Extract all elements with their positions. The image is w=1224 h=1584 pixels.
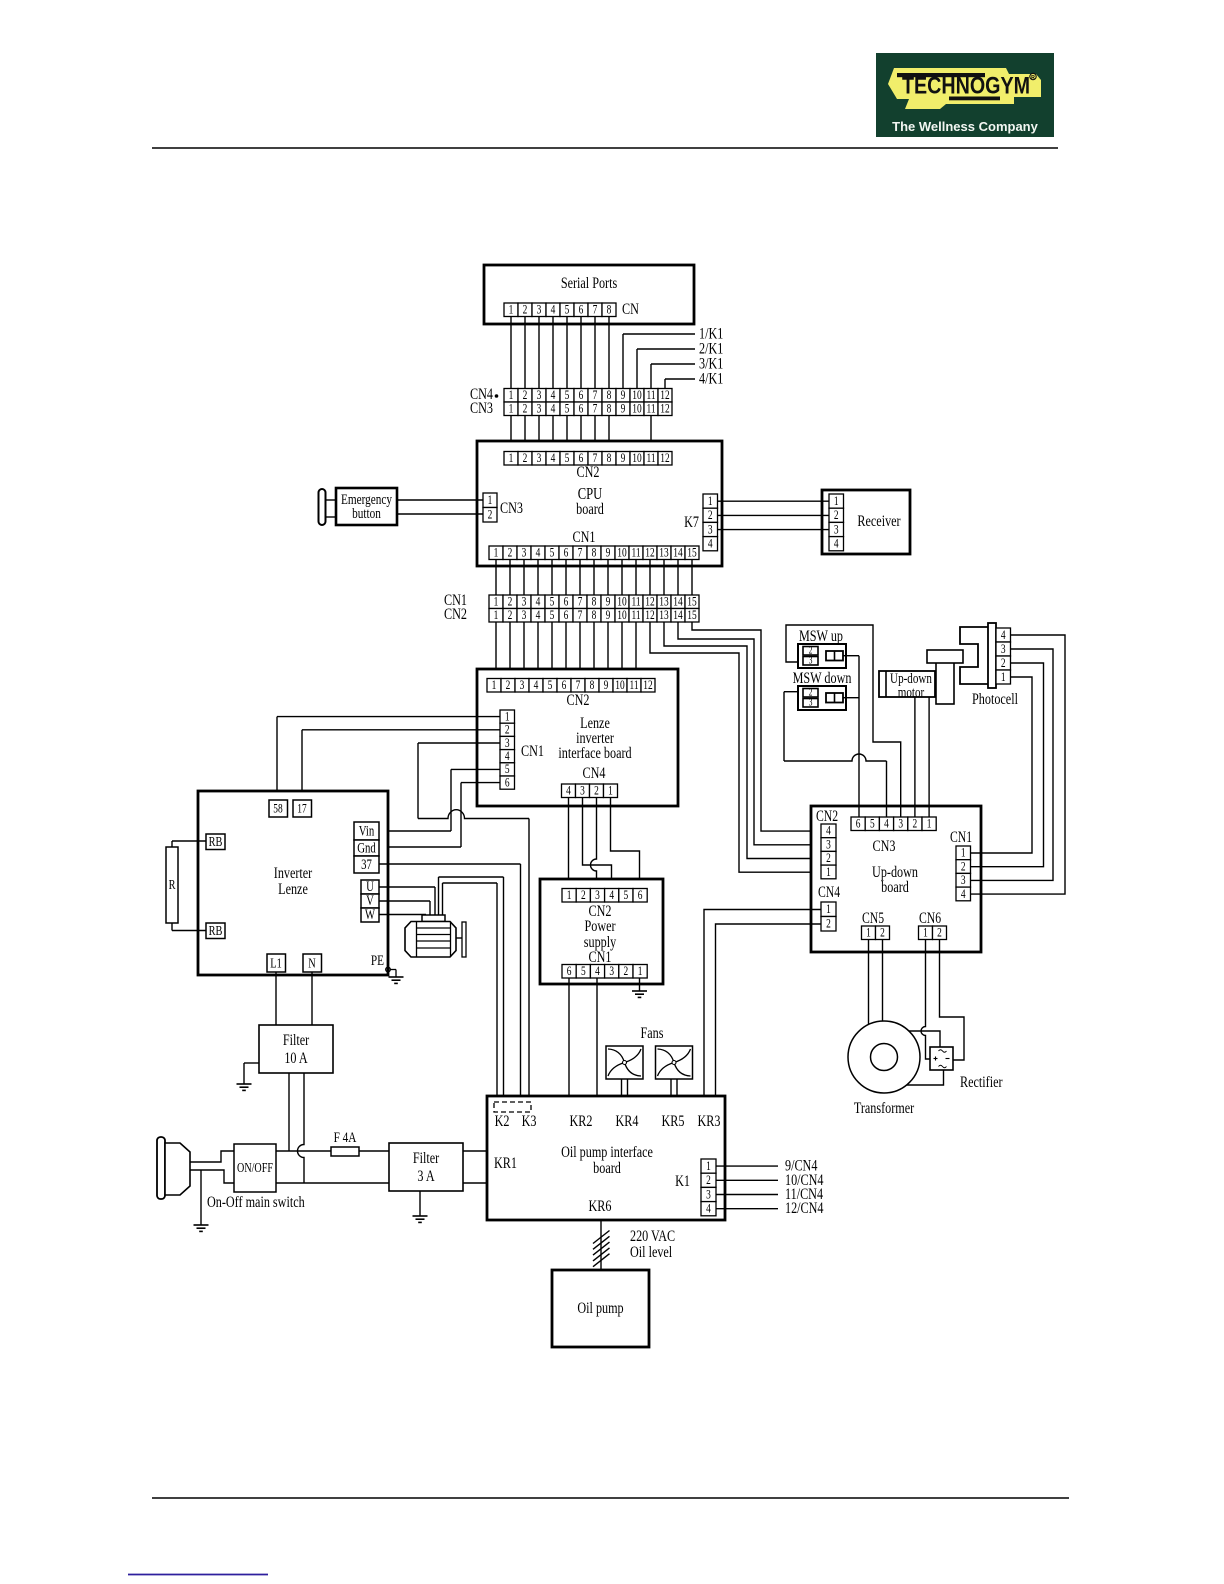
svg-text:2: 2 <box>594 784 599 798</box>
svg-text:8: 8 <box>592 609 597 623</box>
svg-text:6: 6 <box>579 303 584 317</box>
svg-text:5: 5 <box>581 965 586 979</box>
svg-text:7: 7 <box>593 389 598 403</box>
svg-text:5: 5 <box>565 389 570 403</box>
svg-text:7: 7 <box>593 402 598 416</box>
svg-text:4: 4 <box>551 452 556 466</box>
svg-text:4: 4 <box>536 595 541 609</box>
svg-text:11: 11 <box>646 452 655 466</box>
svg-text:K3: K3 <box>522 1112 537 1130</box>
svg-text:4: 4 <box>551 303 556 317</box>
svg-text:13: 13 <box>659 546 669 560</box>
svg-text:12: 12 <box>645 595 654 609</box>
svg-text:4: 4 <box>708 537 713 551</box>
svg-text:3: 3 <box>537 402 542 416</box>
svg-text:ON/OFF: ON/OFF <box>237 1160 273 1176</box>
svg-text:3: 3 <box>537 303 542 317</box>
svg-text:11: 11 <box>646 402 655 416</box>
svg-text:17: 17 <box>297 802 307 816</box>
svg-text:4: 4 <box>566 784 571 798</box>
svg-text:1: 1 <box>494 595 499 609</box>
svg-text:5: 5 <box>550 595 555 609</box>
svg-text:11: 11 <box>631 595 640 609</box>
svg-text:CN6: CN6 <box>919 909 941 926</box>
svg-text:14: 14 <box>673 609 683 623</box>
svg-text:4: 4 <box>961 888 966 902</box>
svg-text:Vin: Vin <box>359 823 375 839</box>
svg-text:4/K1: 4/K1 <box>699 370 723 388</box>
svg-text:5: 5 <box>505 763 510 777</box>
svg-text:4: 4 <box>534 679 539 693</box>
svg-text:4: 4 <box>609 889 614 903</box>
svg-text:10: 10 <box>617 546 627 560</box>
svg-text:KR3: KR3 <box>698 1112 721 1130</box>
svg-text:W: W <box>365 907 375 923</box>
svg-text:11: 11 <box>631 609 640 623</box>
svg-text:7: 7 <box>578 595 583 609</box>
svg-text:K7: K7 <box>684 513 699 531</box>
svg-text:14: 14 <box>673 595 683 609</box>
svg-text:7: 7 <box>578 609 583 623</box>
svg-text:6: 6 <box>562 679 567 693</box>
svg-text:4: 4 <box>826 825 831 839</box>
svg-text:9: 9 <box>621 402 626 416</box>
svg-text:11: 11 <box>646 389 655 403</box>
svg-text:Transformer: Transformer <box>854 1099 915 1117</box>
svg-text:11: 11 <box>631 546 640 560</box>
svg-text:1: 1 <box>494 546 499 560</box>
svg-text:12: 12 <box>660 452 669 466</box>
svg-text:3: 3 <box>580 784 585 798</box>
svg-text:3: 3 <box>609 965 614 979</box>
svg-text:1: 1 <box>834 495 839 509</box>
svg-text:6: 6 <box>505 776 510 790</box>
svg-text:1: 1 <box>488 494 493 508</box>
svg-text:2: 2 <box>506 679 511 693</box>
svg-text:1: 1 <box>866 926 871 940</box>
svg-text:3: 3 <box>708 523 713 537</box>
svg-text:MSW up: MSW up <box>799 627 843 645</box>
svg-text:5: 5 <box>870 817 875 831</box>
svg-text:CN4: CN4 <box>818 883 840 900</box>
svg-text:8: 8 <box>607 303 612 317</box>
svg-text:4: 4 <box>536 546 541 560</box>
svg-text:2: 2 <box>508 609 513 623</box>
svg-text:CN1: CN1 <box>950 828 972 845</box>
svg-text:2: 2 <box>880 926 885 940</box>
svg-text:4: 4 <box>551 402 556 416</box>
svg-text:6: 6 <box>564 595 569 609</box>
svg-text:4: 4 <box>505 750 510 764</box>
svg-text:58: 58 <box>273 802 283 816</box>
svg-text:KR2: KR2 <box>570 1112 593 1130</box>
svg-text:1: 1 <box>927 817 932 831</box>
svg-text:2: 2 <box>505 723 510 737</box>
svg-text:CN4: CN4 <box>583 764 606 782</box>
svg-text:Photocell: Photocell <box>972 690 1018 708</box>
svg-text:CN2: CN2 <box>567 691 590 709</box>
svg-text:7: 7 <box>576 679 581 693</box>
svg-text:2: 2 <box>937 926 942 940</box>
svg-text:6: 6 <box>638 889 643 903</box>
svg-text:10 A: 10 A <box>284 1049 308 1067</box>
svg-text:8: 8 <box>592 595 597 609</box>
svg-text:PE: PE <box>371 951 384 968</box>
svg-text:10: 10 <box>615 679 625 693</box>
svg-text:KR1: KR1 <box>494 1154 517 1172</box>
svg-text:CN2: CN2 <box>577 463 600 481</box>
svg-text:TECHNOGYM: TECHNOGYM <box>902 73 1030 100</box>
svg-text:1: 1 <box>509 389 514 403</box>
svg-text:2: 2 <box>706 1174 711 1188</box>
svg-text:1: 1 <box>708 495 713 509</box>
svg-text:On-Off main switch: On-Off main switch <box>207 1193 305 1211</box>
svg-text:9: 9 <box>606 595 611 609</box>
svg-text:Filter: Filter <box>283 1031 310 1049</box>
svg-text:3: 3 <box>522 609 527 623</box>
svg-text:2: 2 <box>708 509 713 523</box>
svg-text:MSW down: MSW down <box>793 669 852 687</box>
svg-text:4: 4 <box>834 537 839 551</box>
svg-text:5: 5 <box>548 679 553 693</box>
svg-text:7: 7 <box>578 546 583 560</box>
svg-text:4: 4 <box>536 609 541 623</box>
svg-text:8: 8 <box>607 389 612 403</box>
svg-text:2: 2 <box>581 889 586 903</box>
svg-text:L1: L1 <box>270 955 281 971</box>
svg-text:KR4: KR4 <box>616 1112 639 1130</box>
svg-text:1: 1 <box>509 452 514 466</box>
svg-text:2: 2 <box>913 817 918 831</box>
svg-text:CN3: CN3 <box>873 837 896 855</box>
svg-text:4: 4 <box>595 965 600 979</box>
svg-text:8: 8 <box>592 546 597 560</box>
svg-text:37: 37 <box>361 857 372 873</box>
svg-text:13: 13 <box>659 595 669 609</box>
svg-text:2: 2 <box>508 595 513 609</box>
svg-text:interface board: interface board <box>558 744 631 762</box>
svg-text:CN1: CN1 <box>521 742 544 760</box>
svg-text:5: 5 <box>565 452 570 466</box>
svg-text:K2: K2 <box>495 1112 510 1130</box>
svg-text:CN1: CN1 <box>573 528 596 546</box>
svg-text:9: 9 <box>606 609 611 623</box>
svg-text:1: 1 <box>826 903 831 917</box>
svg-text:9: 9 <box>621 389 626 403</box>
svg-text:8: 8 <box>590 679 595 693</box>
svg-text:board: board <box>881 878 909 896</box>
svg-text:6: 6 <box>856 817 861 831</box>
svg-text:12: 12 <box>643 679 652 693</box>
svg-text:5: 5 <box>550 546 555 560</box>
svg-text:15: 15 <box>687 595 697 609</box>
svg-text:2: 2 <box>624 965 629 979</box>
svg-text:3: 3 <box>1001 643 1006 657</box>
svg-text:Oil pump: Oil pump <box>577 1299 623 1317</box>
svg-text:1: 1 <box>706 1160 711 1174</box>
svg-text:2: 2 <box>1001 657 1006 671</box>
svg-text:button: button <box>352 504 381 521</box>
svg-text:2: 2 <box>826 917 831 931</box>
svg-text:10: 10 <box>617 609 627 623</box>
svg-text:3: 3 <box>898 817 903 831</box>
svg-text:4: 4 <box>884 817 889 831</box>
svg-text:Serial Ports: Serial Ports <box>561 274 618 292</box>
svg-text:Lenze: Lenze <box>278 880 308 898</box>
svg-text:3 A: 3 A <box>417 1167 435 1185</box>
svg-text:R: R <box>1031 75 1035 81</box>
svg-text:8: 8 <box>607 452 612 466</box>
svg-text:4: 4 <box>1001 629 1006 643</box>
svg-text:CN3: CN3 <box>470 399 493 417</box>
svg-text:2: 2 <box>834 509 839 523</box>
svg-text:5: 5 <box>550 609 555 623</box>
svg-text:Rectifier: Rectifier <box>960 1073 1003 1091</box>
svg-text:1: 1 <box>505 710 510 724</box>
svg-text:12: 12 <box>660 389 669 403</box>
svg-text:CN5: CN5 <box>862 909 884 926</box>
svg-text:KR6: KR6 <box>589 1197 612 1215</box>
svg-text:1: 1 <box>608 784 613 798</box>
svg-text:2: 2 <box>523 389 528 403</box>
svg-text:10: 10 <box>632 452 642 466</box>
svg-text:1: 1 <box>826 866 831 880</box>
svg-text:3: 3 <box>809 654 813 665</box>
svg-text:12/CN4: 12/CN4 <box>785 1200 823 1218</box>
svg-text:Oil level: Oil level <box>630 1243 672 1261</box>
svg-text:N: N <box>308 955 316 971</box>
svg-text:4: 4 <box>551 389 556 403</box>
svg-text:F 4A: F 4A <box>334 1128 357 1145</box>
svg-text:3: 3 <box>537 389 542 403</box>
svg-text:1: 1 <box>509 402 514 416</box>
svg-text:Gnd: Gnd <box>357 840 376 856</box>
svg-text:1: 1 <box>961 847 966 861</box>
svg-text:CN3: CN3 <box>500 499 523 517</box>
svg-text:2: 2 <box>826 852 831 866</box>
svg-text:RB: RB <box>209 834 223 850</box>
svg-text:6: 6 <box>564 609 569 623</box>
svg-text:1: 1 <box>638 965 643 979</box>
svg-text:5: 5 <box>624 889 629 903</box>
svg-text:3: 3 <box>522 595 527 609</box>
svg-text:7: 7 <box>593 303 598 317</box>
svg-text:6: 6 <box>579 389 584 403</box>
svg-text:10: 10 <box>632 402 642 416</box>
svg-text:board: board <box>576 500 604 518</box>
svg-text:KR5: KR5 <box>662 1112 685 1130</box>
svg-text:2: 2 <box>523 303 528 317</box>
svg-text:11: 11 <box>629 679 638 693</box>
svg-text:RB: RB <box>209 923 223 939</box>
svg-text:CN: CN <box>622 300 639 318</box>
svg-text:motor: motor <box>898 683 925 700</box>
svg-text:9: 9 <box>621 452 626 466</box>
svg-text:6: 6 <box>567 965 572 979</box>
svg-text:14: 14 <box>673 546 683 560</box>
svg-text:5: 5 <box>565 402 570 416</box>
svg-text:Filter: Filter <box>413 1149 440 1167</box>
svg-text:6: 6 <box>564 546 569 560</box>
svg-text:CN2: CN2 <box>444 605 467 623</box>
svg-text:2: 2 <box>523 452 528 466</box>
svg-text:Fans: Fans <box>641 1024 664 1042</box>
svg-text:1: 1 <box>567 889 572 903</box>
svg-text:6: 6 <box>579 402 584 416</box>
svg-text:3: 3 <box>520 679 525 693</box>
svg-text:3: 3 <box>522 546 527 560</box>
svg-text:board: board <box>593 1159 621 1177</box>
svg-text:5: 5 <box>565 303 570 317</box>
svg-text:12: 12 <box>645 546 654 560</box>
svg-text:15: 15 <box>687 546 697 560</box>
svg-text:3: 3 <box>826 838 831 852</box>
svg-text:Receiver: Receiver <box>857 512 900 530</box>
svg-text:The Wellness Company: The Wellness Company <box>892 119 1038 134</box>
svg-text:3: 3 <box>706 1188 711 1202</box>
svg-text:9: 9 <box>604 679 609 693</box>
svg-text:13: 13 <box>659 609 669 623</box>
svg-text:3: 3 <box>595 889 600 903</box>
svg-text:3: 3 <box>961 874 966 888</box>
svg-text:2: 2 <box>523 402 528 416</box>
svg-text:2: 2 <box>961 860 966 874</box>
svg-text:9: 9 <box>606 546 611 560</box>
svg-text:1: 1 <box>1001 671 1006 685</box>
svg-text:4: 4 <box>706 1202 711 1216</box>
svg-text:3: 3 <box>834 523 839 537</box>
svg-text:K1: K1 <box>675 1172 690 1190</box>
svg-text:10: 10 <box>632 389 642 403</box>
svg-text:15: 15 <box>687 609 697 623</box>
svg-text:12: 12 <box>660 402 669 416</box>
svg-text:1: 1 <box>509 303 514 317</box>
svg-text:1: 1 <box>494 609 499 623</box>
svg-text:CN2: CN2 <box>816 807 838 824</box>
svg-text:3: 3 <box>809 696 813 707</box>
svg-text:1: 1 <box>923 926 928 940</box>
svg-text:2: 2 <box>488 508 493 522</box>
svg-text:3: 3 <box>505 737 510 751</box>
svg-text:3: 3 <box>537 452 542 466</box>
svg-text:10: 10 <box>617 595 627 609</box>
svg-text:R: R <box>169 877 177 893</box>
svg-text:12: 12 <box>645 609 654 623</box>
svg-text:CN1: CN1 <box>589 948 612 966</box>
svg-text:1: 1 <box>492 679 497 693</box>
svg-text:2: 2 <box>508 546 513 560</box>
svg-text:8: 8 <box>607 402 612 416</box>
